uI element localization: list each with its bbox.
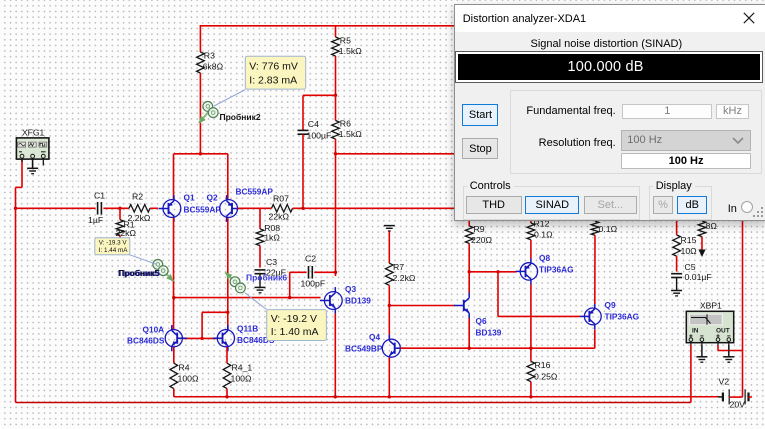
wire Q2 collector column <box>227 218 229 331</box>
svg-text:Пробник6: Пробник6 <box>246 273 287 283</box>
probe Пробник5 <box>161 268 174 282</box>
svg-text:100pF: 100pF <box>301 279 326 289</box>
svg-text:BC559AP: BC559AP <box>236 187 274 197</box>
ground below XBP1 OUT- <box>728 345 730 357</box>
resistor R4 <box>173 347 175 363</box>
svg-text:C1: C1 <box>94 190 105 200</box>
wire jog vertical <box>201 312 203 338</box>
svg-text:C2: C2 <box>305 254 316 264</box>
svg-text:Пробник2: Пробник2 <box>220 112 261 122</box>
wire to Q6 base <box>389 305 455 307</box>
wire emitter bus of Q1/Q2 <box>174 153 228 155</box>
resistor R9 <box>465 226 473 244</box>
svg-text:Q1: Q1 <box>184 193 195 203</box>
svg-text:BD139: BD139 <box>476 328 502 338</box>
ground below XBP1 IN- <box>701 345 703 357</box>
svg-text:V2: V2 <box>719 377 730 387</box>
ground below XFG1 <box>27 167 38 169</box>
svg-text:100Ω: 100Ω <box>178 374 199 384</box>
svg-text:1.5kΩ: 1.5kΩ <box>339 46 362 56</box>
svg-text:20V: 20V <box>730 400 746 410</box>
svg-text:IN: IN <box>692 328 699 335</box>
svg-text:XBP1: XBP1 <box>700 301 722 311</box>
svg-text:Q10A: Q10A <box>143 325 165 335</box>
rail A (signal/ground bus) <box>16 402 691 404</box>
svg-text:Q6: Q6 <box>476 316 487 326</box>
node tail junction <box>199 152 202 155</box>
svg-text:1.5kΩ: 1.5kΩ <box>339 129 362 139</box>
svg-text:XFG1: XFG1 <box>22 128 44 138</box>
output arrow terminal <box>698 250 705 258</box>
svg-text:22kΩ: 22kΩ <box>116 228 137 238</box>
svg-text:C3: C3 <box>266 257 277 267</box>
svg-text:0.1Ω: 0.1Ω <box>599 224 618 234</box>
function generator XFG1 <box>16 138 49 159</box>
wire Q2 base row <box>238 207 272 209</box>
wire rail to Q3 collector <box>335 154 337 276</box>
probe readout box 2 <box>245 56 305 89</box>
wire R2-Q1 <box>150 207 158 209</box>
wire C1-R2 <box>103 207 129 209</box>
node R7/Q4/Q6 <box>388 304 391 307</box>
probe readout box 6 <box>267 310 327 341</box>
svg-text:BC549BP: BC549BP <box>345 344 383 354</box>
svg-text:Q2: Q2 <box>207 193 218 203</box>
resistor R08 <box>259 208 261 229</box>
wire Q4 emitter <box>388 358 390 397</box>
svg-text:R07: R07 <box>273 193 289 203</box>
svg-text:R2: R2 <box>132 191 143 201</box>
svg-text:R4: R4 <box>179 363 190 373</box>
resistor R3 <box>197 52 205 73</box>
capacitor C3 <box>255 269 266 271</box>
svg-text:V: -19.2 V: V: -19.2 V <box>271 313 317 325</box>
wire Q8 emitter to output <box>530 285 532 362</box>
svg-text:R7: R7 <box>393 262 404 272</box>
svg-text:I: 2.83 mA: I: 2.83 mA <box>249 75 297 87</box>
capacitor C1 <box>97 202 99 215</box>
svg-text:2.2kΩ: 2.2kΩ <box>393 273 416 283</box>
resistor R15 column <box>676 219 678 235</box>
svg-text:BD139: BD139 <box>345 296 371 306</box>
svg-text:R6: R6 <box>340 119 351 129</box>
wire drop to Q9 base row <box>497 272 499 317</box>
svg-text:0.25Ω: 0.25Ω <box>534 372 558 382</box>
svg-text:0.01µF: 0.01µF <box>685 272 712 282</box>
probe readout box 5 <box>95 238 130 255</box>
resistor R13 0.1ohm <box>594 219 596 221</box>
wire mirror bases <box>182 337 217 339</box>
probe link line 2 <box>214 90 246 107</box>
resistor R12 0.1ohm <box>530 219 532 223</box>
svg-text:Q9: Q9 <box>605 300 616 310</box>
svg-text:I: 1.40 mA: I: 1.40 mA <box>271 326 319 338</box>
node Q8 drive <box>468 270 471 273</box>
resistor R6 <box>332 121 340 139</box>
wire to Q8 base <box>469 271 516 273</box>
wire Q1 collector column <box>173 218 175 330</box>
wire C2 right lead <box>314 271 335 273</box>
svg-text:TIP36AG: TIP36AG <box>605 312 640 322</box>
svg-text:1µF: 1µF <box>88 215 103 225</box>
svg-text:1kΩ: 1kΩ <box>264 233 280 243</box>
wire R07 to analyzer In <box>293 207 456 209</box>
svg-text:Q8: Q8 <box>539 253 550 263</box>
resistor R2 <box>129 205 150 213</box>
svg-text:R08: R08 <box>264 223 280 233</box>
ground below C3 <box>259 274 261 288</box>
XFG1 terminal stubs <box>21 158 23 162</box>
transistor Q10A BC846DS <box>165 325 187 351</box>
wire input signal row <box>16 207 96 209</box>
svg-text:Q4: Q4 <box>369 332 380 342</box>
svg-text:Q11B: Q11B <box>237 324 258 334</box>
bode plotter XBP1 <box>686 311 733 342</box>
svg-text:OUT: OUT <box>716 328 730 335</box>
wire Q9 emitter to output node <box>594 330 596 349</box>
svg-text:C4: C4 <box>308 119 319 129</box>
svg-text:R5: R5 <box>340 36 351 46</box>
svg-text:R16: R16 <box>535 360 551 370</box>
ground above R7 <box>384 225 395 227</box>
capacitor C4 <box>302 95 304 130</box>
wire ground-R7 <box>388 231 390 263</box>
svg-text:V: 776 mV: V: 776 mV <box>249 60 298 72</box>
capacitor C5 <box>671 273 682 275</box>
node mirror output <box>172 296 175 299</box>
transistor Q11B BC846DS <box>213 325 235 351</box>
transistor Q9 TIP36AG <box>580 304 601 330</box>
resistor R5 <box>332 37 340 56</box>
wire R5 column <box>335 25 337 37</box>
wire C2 left lead <box>290 271 307 273</box>
probe Пробник2 <box>199 110 211 124</box>
node C4 bottom <box>301 207 304 210</box>
wire analyzer In column <box>742 219 744 397</box>
svg-text:6k8Ω: 6k8Ω <box>203 62 224 72</box>
wire Q3 emitter down <box>334 314 336 397</box>
svg-text:C5: C5 <box>685 262 696 272</box>
node C2/Q3 collector <box>334 271 337 274</box>
transistor Q3 BD139 <box>320 287 342 314</box>
wire to Q4 collector <box>388 306 390 340</box>
svg-text:Пробник5: Пробник5 <box>118 268 159 278</box>
transistor Q1 BC559AP <box>159 195 181 222</box>
wire to Q3 base <box>174 297 321 299</box>
wire Q6 emitter down <box>468 319 470 349</box>
svg-text:I: 1.44 mA: I: 1.44 mA <box>99 247 128 254</box>
svg-text:BC559AP: BC559AP <box>184 205 222 215</box>
svg-text:10Ω: 10Ω <box>681 246 698 256</box>
battery V2 <box>718 396 723 398</box>
node R6 bottom <box>334 152 337 155</box>
wire R3 column <box>199 25 201 52</box>
svg-text:BC846DS: BC846DS <box>127 336 165 346</box>
node output/R16 <box>529 347 532 350</box>
svg-text:8Ω: 8Ω <box>706 221 718 231</box>
wire C4 top <box>303 94 336 96</box>
wire jog horizontal <box>202 311 228 313</box>
node diode connect <box>226 311 229 314</box>
wire XFG1 output drop <box>21 160 23 187</box>
resistor R07 <box>272 205 293 213</box>
capacitor C2 <box>308 266 310 279</box>
svg-text:Q3: Q3 <box>345 284 356 294</box>
svg-text:V: -19.3 V: V: -19.3 V <box>99 240 128 247</box>
transistor Q8 TIP36AG <box>516 258 538 284</box>
resistor R1 <box>119 208 121 219</box>
node Q9 drive tap <box>496 270 499 273</box>
wire Q4 base/output node <box>401 347 595 349</box>
svg-text:0.1Ω: 0.1Ω <box>534 230 553 240</box>
resistor R7 <box>385 263 393 285</box>
svg-text:100Ω: 100Ω <box>231 374 252 384</box>
svg-text:100µF: 100µF <box>307 131 332 141</box>
wire C2 drop <box>289 272 291 297</box>
svg-text:R9: R9 <box>474 224 485 234</box>
wire Q6 collector up / R9 <box>468 243 470 292</box>
svg-text:22kΩ: 22kΩ <box>269 212 290 222</box>
svg-text:220Ω: 220Ω <box>471 235 492 245</box>
rail B (V- bus) <box>174 396 718 398</box>
node R5/R6/C4 <box>334 94 337 97</box>
probe Пробник6 <box>225 272 238 285</box>
resistor 8ohm load <box>701 219 703 221</box>
ground below C5 <box>671 290 682 292</box>
node input <box>14 207 17 210</box>
transistor Q2 BC559AP <box>220 195 242 222</box>
wire to analyzer (hidden under dialog) <box>336 153 456 155</box>
node C2 left <box>288 296 291 299</box>
resistor R4_1 <box>226 347 228 363</box>
svg-text:R3: R3 <box>204 51 215 61</box>
XBP1 IN+ wire to rail A <box>690 345 692 403</box>
svg-text:TIP36AG: TIP36AG <box>539 265 574 275</box>
wire to Q9 base <box>498 315 580 317</box>
transistor Q4 BC549BP <box>382 335 405 362</box>
svg-text:R15: R15 <box>681 235 697 245</box>
node R1 tap <box>118 207 121 210</box>
instrument dialog Distortion analyzer-XDA1 <box>454 4 765 222</box>
wire top rail +supply <box>200 25 496 27</box>
wire OUT+ jog <box>718 350 743 352</box>
transistor Q6 BD139 (no circle) <box>454 292 469 319</box>
svg-text:R4_1: R4_1 <box>232 363 253 373</box>
resistor R16 <box>527 361 535 381</box>
